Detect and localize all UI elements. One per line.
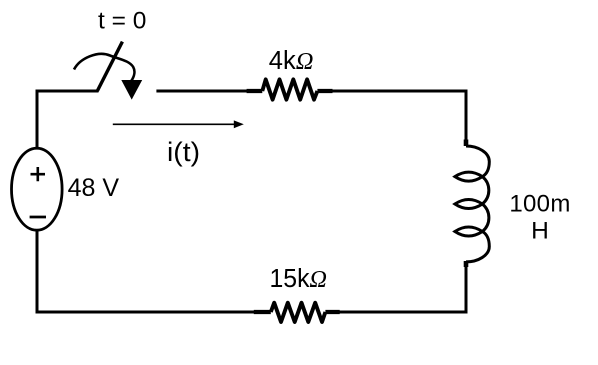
svg-text:H: H [531, 218, 549, 245]
inductor L1 bottom terminal tick [464, 261, 469, 267]
plus sign [31, 167, 46, 181]
switch arrowhead [121, 80, 142, 100]
resistor R2 15k zigzag [271, 303, 326, 322]
resistor R1 4k leads [247, 89, 333, 93]
switch blade SW1 [97, 42, 122, 91]
wire top-right horizontal [156, 90, 467, 93]
svg-text:15k: 15k [270, 265, 310, 293]
current arrow i(t) [113, 123, 236, 125]
minus sign [30, 216, 46, 219]
wire top-left horizontal [36, 90, 99, 93]
inductor L1 coil [455, 146, 489, 262]
svg-text:i(t): i(t) [167, 137, 200, 167]
switch closing arc arrow [74, 54, 134, 82]
inductor L1 top terminal tick [464, 140, 469, 147]
wire bottom horizontal [36, 311, 468, 314]
svg-text:100m: 100m [509, 191, 570, 218]
svg-text:t = 0: t = 0 [98, 7, 146, 34]
resistor R2 15k leads [254, 310, 340, 314]
wire left vertical upper [36, 90, 39, 150]
svg-text:4k: 4k [269, 47, 296, 75]
wire right vertical upper [465, 90, 468, 141]
svg-text:Ω: Ω [296, 48, 314, 75]
svg-text:Ω: Ω [309, 266, 327, 293]
wire right vertical lower [465, 267, 468, 314]
svg-text:48 V: 48 V [68, 174, 120, 202]
resistor R1 4k zigzag [262, 79, 317, 99]
wire left vertical lower [36, 230, 39, 314]
voltage source V1 ellipse [12, 148, 63, 230]
